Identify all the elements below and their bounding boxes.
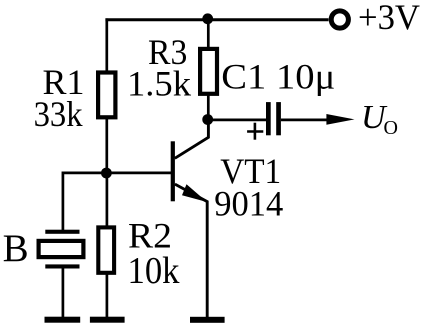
element B top plate	[45, 230, 79, 234]
wire element B to ground	[62, 267, 65, 318]
transistor VT1 base bar	[171, 141, 175, 201]
ground bar under R2	[90, 317, 125, 323]
resistor R2	[98, 227, 114, 272]
node B junction dot below R3	[202, 114, 213, 125]
wire left vertical upper (R1 top lead)	[105, 18, 108, 72]
ground bar under element B	[45, 317, 81, 323]
terminal +3V open circle	[331, 11, 348, 28]
transistor VT1 collector lead	[175, 120, 209, 159]
node A junction dot on top rail	[202, 13, 213, 24]
svg-text:C1 10μ: C1 10μ	[221, 57, 335, 97]
svg-text:9014: 9014	[214, 183, 283, 223]
output arrow	[326, 114, 354, 125]
wire R3 top lead	[207, 19, 210, 49]
transistor VT1 emitter lead	[175, 184, 207, 317]
resistor R3	[200, 49, 217, 94]
wire top rail	[105, 18, 328, 21]
capacitor C1 right plate	[276, 102, 281, 135]
svg-text:+3V: +3V	[358, 0, 420, 37]
ground bar under emitter	[190, 317, 225, 323]
svg-text:O: O	[384, 117, 398, 139]
wire R2 bottom lead to ground	[106, 272, 109, 318]
resistor R1	[98, 73, 115, 118]
transistor VT1 emitter arrowhead	[182, 184, 207, 202]
svg-text:1.5k: 1.5k	[127, 64, 191, 104]
plus polarity mark of C1	[247, 130, 263, 133]
wire base lead from node C to transistor	[106, 172, 171, 175]
svg-text:B: B	[3, 227, 29, 270]
element B body	[39, 241, 84, 257]
wire node C left and down to element B	[63, 173, 107, 231]
svg-text:33k: 33k	[34, 94, 83, 134]
node C junction dot	[101, 168, 112, 179]
wire node B to capacitor C1	[208, 119, 267, 122]
svg-text:10k: 10k	[128, 250, 180, 292]
capacitor C1 left plate	[266, 102, 271, 135]
wire R2 top lead	[106, 173, 109, 228]
element B bottom plate	[45, 264, 79, 268]
wire R1 bottom lead to node C	[105, 118, 108, 174]
wire R3 bottom lead to node B	[207, 93, 210, 120]
wire C1 to output arrow	[281, 119, 330, 122]
